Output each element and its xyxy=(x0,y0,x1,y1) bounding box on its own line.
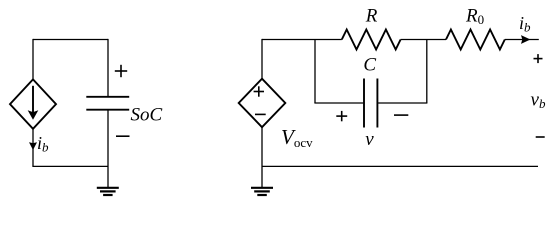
wire R0 to terminal xyxy=(505,39,539,41)
svg-text:C: C xyxy=(363,55,376,76)
wire below voltage source to ground xyxy=(261,127,263,187)
current arrow i_b (output) xyxy=(521,35,530,44)
wire bottom rail left circuit xyxy=(32,165,108,167)
label - (capacitor C) xyxy=(394,114,408,116)
svg-text:R: R xyxy=(365,6,378,27)
capacitor C xyxy=(364,79,377,128)
label + (inside source) xyxy=(254,86,264,96)
label - (capacitor SoC) xyxy=(116,135,130,137)
svg-text:SoC: SoC xyxy=(131,105,163,126)
resistor R xyxy=(342,30,401,50)
label - (inside source) xyxy=(255,113,266,115)
wire top rail left circuit xyxy=(33,39,108,41)
wire left drop to voltage source xyxy=(261,39,263,79)
label + (terminal) xyxy=(534,54,543,63)
label - (terminal) xyxy=(536,136,545,138)
wire from capacitor C (right side) xyxy=(378,102,427,104)
svg-text:v: v xyxy=(365,129,374,150)
wire parallel box left vertical xyxy=(314,40,316,104)
wire below current source xyxy=(32,129,34,167)
capacitor SoC (left circuit) xyxy=(86,97,129,110)
current source I1 (dependent, diamond) xyxy=(10,79,56,128)
voltage source U1 (dependent, diamond) xyxy=(239,79,286,128)
wire to capacitor C (left side) xyxy=(314,102,363,104)
wire right drop to capacitor xyxy=(107,39,109,97)
wire parallel box right vertical xyxy=(426,40,428,104)
wire from capacitor to ground xyxy=(107,110,109,188)
wire R to R0 xyxy=(401,39,446,41)
wire bottom rail right circuit xyxy=(262,165,538,167)
resistor R0 xyxy=(446,30,505,50)
wire left drop to current source xyxy=(32,39,34,80)
current arrow i_b (left branch) xyxy=(29,142,37,150)
ground (right circuit) xyxy=(251,188,273,195)
label + (capacitor C) xyxy=(336,111,347,121)
ground (left circuit) xyxy=(97,188,119,195)
label + (capacitor SoC) xyxy=(115,65,127,77)
wire top rail: source to R xyxy=(262,39,342,41)
